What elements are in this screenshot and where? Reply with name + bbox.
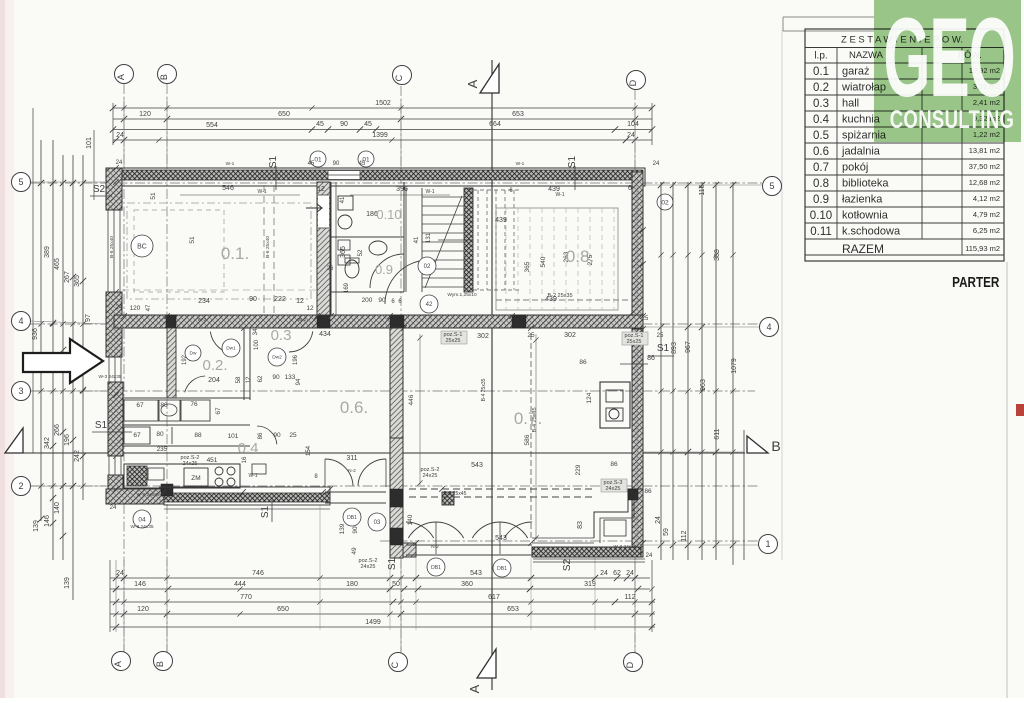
- extra ticks bottom chains: [121, 575, 126, 580]
- svg-text:RAZEM: RAZEM: [842, 242, 884, 256]
- svg-text:0.10: 0.10: [810, 210, 832, 222]
- partition 0.2/0.3 x167: [167, 328, 176, 398]
- right exterior wall: [632, 172, 643, 316]
- svg-text:B-6 25x40: B-6 25x40: [265, 236, 271, 258]
- svg-text:396: 396: [396, 186, 408, 193]
- svg-text:140: 140: [54, 502, 61, 514]
- svg-text:451: 451: [207, 457, 218, 464]
- svg-text:Dw1: Dw1: [226, 346, 236, 352]
- door arc hall big: [385, 260, 428, 304]
- svg-text:34: 34: [253, 328, 259, 335]
- svg-text:04: 04: [138, 516, 146, 523]
- svg-text:131: 131: [426, 232, 432, 243]
- svg-text:88: 88: [194, 432, 202, 439]
- svg-text:196: 196: [293, 354, 299, 365]
- svg-text:W-1: W-1: [555, 192, 564, 198]
- svg-text:24x25: 24x25: [606, 486, 621, 492]
- svg-text:DB1: DB1: [497, 566, 507, 572]
- svg-text:311: 311: [346, 455, 357, 462]
- bottom-right exterior wall: [532, 547, 641, 557]
- svg-text:133: 133: [285, 374, 296, 381]
- svg-text:0.3: 0.3: [813, 98, 829, 110]
- washbasin 0.9: [369, 241, 387, 255]
- svg-text:45: 45: [364, 121, 372, 128]
- svg-text:746: 746: [252, 570, 264, 577]
- svg-text:2: 2: [18, 481, 23, 491]
- svg-text:104: 104: [627, 121, 639, 128]
- svg-text:242: 242: [74, 450, 81, 462]
- svg-text:0.6.: 0.6.: [340, 398, 368, 417]
- right dim chains: [660, 182, 662, 560]
- door opening sill room 0.6: [325, 491, 386, 493]
- svg-text:C: C: [394, 74, 404, 81]
- svg-text:58: 58: [236, 376, 242, 383]
- svg-text:W-1: W-1: [516, 161, 525, 167]
- svg-text:01: 01: [314, 156, 322, 163]
- big north arrow: [23, 339, 103, 383]
- svg-text:garaż: garaż: [842, 66, 870, 78]
- svg-text:42: 42: [426, 302, 433, 308]
- svg-text:67: 67: [133, 432, 141, 439]
- svg-text:154: 154: [306, 445, 312, 456]
- svg-text:A: A: [467, 684, 482, 693]
- left window lower: [108, 357, 110, 382]
- svg-text:24: 24: [600, 570, 608, 577]
- section marker A bottom: [477, 649, 496, 678]
- dashed beam room 0.8: [496, 299, 628, 301]
- svg-text:Dw: Dw: [190, 351, 197, 357]
- faint page border lines: [781, 30, 783, 560]
- svg-text:DB1: DB1: [347, 515, 357, 521]
- svg-text:S2: S2: [93, 184, 106, 195]
- svg-text:365: 365: [340, 246, 347, 258]
- svg-text:0.11: 0.11: [810, 226, 832, 238]
- top exterior wall: [114, 168, 645, 186]
- svg-text:W-3 24x35: W-3 24x35: [98, 374, 121, 380]
- garage gate dashed zone BC: [127, 203, 311, 299]
- svg-text:hall: hall: [842, 98, 859, 110]
- closets row2: [122, 424, 250, 426]
- door arc 0.9: [370, 254, 404, 288]
- kitchen counter: [124, 464, 240, 488]
- svg-text:90: 90: [249, 296, 257, 303]
- svg-text:24: 24: [110, 505, 117, 511]
- svg-text:116: 116: [699, 184, 706, 195]
- svg-text:967: 967: [685, 341, 692, 353]
- svg-text:543: 543: [470, 570, 482, 577]
- middle wall columns: [390, 315, 404, 328]
- svg-text:biblioteka: biblioteka: [842, 178, 889, 190]
- grid circles top: [115, 65, 134, 84]
- svg-text:664: 664: [489, 121, 501, 128]
- svg-text:pokój: pokój: [842, 162, 868, 174]
- svg-text:W-1: W-1: [425, 189, 434, 195]
- svg-text:1499: 1499: [365, 619, 381, 626]
- svg-text:650: 650: [278, 111, 290, 118]
- svg-text:389: 389: [714, 249, 721, 261]
- svg-text:653: 653: [507, 606, 519, 613]
- svg-text:62: 62: [258, 375, 264, 382]
- svg-text:83: 83: [577, 521, 584, 529]
- 0.7 dims: [535, 334, 537, 540]
- svg-text:770: 770: [240, 594, 252, 601]
- terrace wall strip under 0.6: [442, 492, 454, 505]
- svg-text:41: 41: [414, 236, 420, 243]
- svg-text:45: 45: [359, 161, 366, 167]
- svg-text:5: 5: [18, 177, 23, 187]
- svg-text:6,25 m2: 6,25 m2: [973, 226, 1000, 235]
- kitchen corner column: [161, 484, 173, 496]
- svg-text:0.4: 0.4: [813, 114, 830, 126]
- bottom dim chains: [110, 577, 650, 579]
- svg-text:936: 936: [32, 328, 39, 340]
- svg-text:546: 546: [222, 185, 234, 192]
- svg-text:302: 302: [564, 332, 576, 339]
- grid axis lines: [123, 84, 125, 652]
- svg-text:24: 24: [646, 553, 653, 559]
- svg-text:1079: 1079: [731, 358, 738, 374]
- svg-text:234: 234: [198, 298, 210, 305]
- sink unit: [127, 466, 147, 486]
- closets top wall y398: [122, 397, 250, 399]
- svg-text:653: 653: [512, 111, 524, 118]
- svg-text:90: 90: [378, 297, 386, 304]
- right bottom step corner: [594, 489, 643, 538]
- svg-text:6: 6: [628, 185, 632, 192]
- svg-text:235: 235: [157, 446, 168, 453]
- svg-text:DB1: DB1: [431, 565, 441, 571]
- svg-text:B-6 25x40: B-6 25x40: [109, 236, 115, 258]
- svg-text:229: 229: [575, 464, 582, 475]
- svg-text:jadalnia: jadalnia: [841, 146, 881, 158]
- svg-text:S1: S1: [95, 420, 108, 431]
- lintel circles 01: [310, 151, 326, 167]
- svg-text:543: 543: [495, 535, 507, 542]
- extra ticks right chains: [658, 252, 663, 257]
- svg-text:146: 146: [134, 581, 146, 588]
- svg-text:25x25: 25x25: [446, 338, 461, 344]
- fireplace: [600, 382, 630, 428]
- svg-text:434: 434: [319, 331, 331, 338]
- svg-text:90: 90: [333, 161, 340, 167]
- svg-text:PARTER: PARTER: [952, 274, 999, 291]
- svg-text:76: 76: [190, 401, 198, 408]
- svg-text:25x25: 25x25: [627, 339, 642, 345]
- svg-text:12: 12: [246, 376, 252, 383]
- svg-text:W-3 24x35: W-3 24x35: [130, 524, 153, 530]
- svg-text:51: 51: [189, 236, 196, 244]
- svg-text:90: 90: [352, 526, 359, 534]
- middle horizontal wall: [114, 315, 643, 328]
- svg-text:120: 120: [137, 606, 149, 613]
- svg-text:5: 5: [769, 181, 774, 191]
- svg-text:266: 266: [54, 424, 61, 436]
- svg-text:200: 200: [362, 297, 373, 304]
- boiler 0.10: [338, 196, 353, 210]
- bottom chain verticals: [109, 560, 111, 632]
- svg-text:94: 94: [296, 378, 302, 385]
- door circles hall: [222, 339, 240, 357]
- section marker A top: [480, 64, 499, 93]
- entry arrow: [306, 204, 322, 212]
- svg-text:0.9: 0.9: [813, 194, 829, 206]
- top chain verticals: [112, 103, 114, 145]
- svg-text:1399: 1399: [372, 132, 388, 139]
- svg-text:0.8.: 0.8.: [566, 247, 594, 266]
- 0.6 dims: [419, 334, 421, 485]
- svg-text:67: 67: [136, 402, 144, 409]
- partition hall right x244: [243, 328, 245, 400]
- svg-text:02: 02: [661, 199, 669, 206]
- svg-text:25: 25: [527, 332, 535, 339]
- svg-text:59: 59: [663, 528, 670, 536]
- svg-text:0.10: 0.10: [376, 207, 401, 222]
- svg-text:97: 97: [85, 314, 92, 322]
- svg-text:302: 302: [477, 333, 489, 340]
- double door 0.6 to terrace: [325, 459, 353, 486]
- grid circles bottom: [112, 652, 131, 671]
- svg-text:52: 52: [358, 249, 364, 256]
- svg-text:24: 24: [116, 305, 123, 311]
- svg-text:196: 196: [64, 434, 71, 446]
- hall door arcs: [210, 332, 236, 354]
- svg-text:101: 101: [86, 137, 93, 149]
- svg-text:B-3 25x45: B-3 25x45: [444, 491, 467, 497]
- 0.9 bottom wall y292: [331, 291, 404, 293]
- svg-text:446: 446: [408, 394, 415, 405]
- svg-text:67: 67: [215, 407, 222, 415]
- svg-text:444: 444: [234, 581, 246, 588]
- fridge small rects: [252, 464, 266, 474]
- svg-text:24: 24: [116, 570, 124, 577]
- svg-text:łazienka: łazienka: [842, 194, 883, 206]
- svg-text:l.p.: l.p.: [814, 51, 827, 62]
- svg-text:W-3 24x35: W-3 24x35: [136, 492, 159, 498]
- patio door opening: [406, 544, 532, 546]
- svg-text:124: 124: [586, 392, 593, 403]
- dashed ceiling beams: [409, 488, 594, 490]
- garage gate opening (thin lines): [107, 210, 109, 292]
- svg-text:A: A: [113, 661, 123, 667]
- svg-text:51: 51: [150, 192, 157, 200]
- svg-text:B: B: [771, 438, 780, 454]
- svg-text:0.1.: 0.1.: [221, 244, 249, 263]
- svg-text:B: B: [159, 74, 169, 80]
- svg-text:0.9: 0.9: [375, 262, 393, 277]
- svg-text:586: 586: [524, 434, 531, 445]
- green logo block: [874, 0, 1021, 142]
- svg-text:0.2: 0.2: [813, 82, 829, 94]
- entry gap in garage right wall: [318, 195, 329, 228]
- svg-text:80: 80: [156, 431, 164, 438]
- svg-text:222: 222: [274, 296, 286, 303]
- svg-text:25: 25: [657, 333, 664, 339]
- svg-text:16: 16: [242, 456, 248, 463]
- svg-text:101: 101: [228, 433, 239, 440]
- svg-text:1502: 1502: [375, 100, 391, 107]
- svg-text:140: 140: [407, 514, 414, 525]
- svg-text:W-1: W-1: [226, 161, 235, 167]
- svg-text:S1: S1: [657, 343, 670, 354]
- svg-text:112: 112: [624, 594, 635, 601]
- window sill below bottom-right wall: [533, 558, 645, 560]
- svg-text:24: 24: [116, 132, 124, 139]
- scan pink left edge: [0, 0, 5, 698]
- svg-text:k.schodowa: k.schodowa: [842, 226, 901, 238]
- svg-text:37,50 m2: 37,50 m2: [969, 162, 1000, 171]
- svg-text:86: 86: [258, 432, 264, 439]
- svg-text:45: 45: [308, 161, 315, 167]
- 0.10 right wall x404: [403, 182, 405, 292]
- svg-text:342: 342: [44, 437, 51, 449]
- svg-text:N-2: N-2: [431, 544, 439, 550]
- svg-text:ZM: ZM: [191, 475, 200, 482]
- svg-text:86: 86: [647, 355, 655, 362]
- svg-text:439: 439: [495, 217, 507, 224]
- svg-text:86: 86: [644, 488, 652, 495]
- grid circles left: [12, 173, 31, 192]
- svg-text:611: 611: [714, 428, 721, 439]
- svg-text:GEO: GEO: [883, 0, 1014, 121]
- svg-text:13,81 m2: 13,81 m2: [969, 146, 1000, 155]
- svg-text:0.3: 0.3: [271, 327, 292, 344]
- svg-text:0.5: 0.5: [813, 130, 829, 142]
- svg-text:A: A: [116, 74, 126, 80]
- svg-text:D: D: [628, 79, 638, 86]
- svg-text:0.2.: 0.2.: [202, 357, 227, 374]
- stair enclosure dark bar: [464, 188, 473, 292]
- svg-text:4: 4: [18, 316, 23, 326]
- svg-text:139: 139: [33, 520, 40, 532]
- svg-text:0.6: 0.6: [813, 146, 829, 158]
- dashed bay in 0.8: [496, 208, 618, 310]
- svg-text:0.7: 0.7: [813, 162, 829, 174]
- svg-text:24: 24: [653, 161, 660, 167]
- closets row1: [124, 400, 158, 421]
- svg-text:3: 3: [18, 386, 23, 396]
- svg-text:90: 90: [272, 374, 280, 381]
- svg-text:86: 86: [579, 359, 587, 366]
- svg-text:120: 120: [130, 305, 141, 312]
- svg-text:Dw2: Dw2: [272, 355, 282, 361]
- svg-text:86: 86: [610, 461, 618, 468]
- svg-text:24x25: 24x25: [183, 461, 198, 467]
- svg-text:115,93 m2: 115,93 m2: [965, 244, 1000, 253]
- svg-text:0.8: 0.8: [813, 178, 829, 190]
- svg-text:41: 41: [340, 196, 346, 203]
- svg-text:24x25: 24x25: [361, 564, 376, 570]
- svg-text:49: 49: [351, 547, 358, 555]
- svg-text:204: 204: [208, 377, 220, 384]
- top dim chains: [113, 107, 652, 109]
- extra ticks top chains: [121, 105, 126, 110]
- svg-text:N-2: N-2: [348, 468, 356, 474]
- section marker left triangle: [5, 428, 23, 453]
- svg-text:554: 554: [206, 122, 218, 129]
- extra ticks left chains: [38, 180, 43, 185]
- vertical wall between 0.6 and 0.7: [390, 328, 403, 438]
- svg-text:180: 180: [346, 581, 358, 588]
- svg-text:S2: S2: [562, 558, 573, 571]
- svg-text:W-3 24x35: W-3 24x35: [613, 544, 636, 550]
- svg-text:4,79 m2: 4,79 m2: [973, 210, 1000, 219]
- svg-text:W-2: W-2: [298, 317, 307, 323]
- left exterior wall segments: [106, 168, 122, 210]
- svg-text:kotłownia: kotłownia: [842, 210, 889, 222]
- svg-text:146: 146: [44, 515, 51, 527]
- svg-text:650: 650: [277, 606, 289, 613]
- area table: [805, 29, 1004, 261]
- svg-text:139: 139: [64, 577, 71, 589]
- red mark right edge: [1016, 404, 1024, 416]
- svg-text:112: 112: [681, 530, 688, 541]
- grid circles right: [763, 177, 782, 196]
- section marker B right: [747, 436, 768, 453]
- svg-text:4: 4: [766, 322, 771, 332]
- stairs treads: [422, 196, 464, 198]
- svg-text:24: 24: [116, 160, 123, 166]
- patio 4-leaf door 0.7: [408, 522, 436, 538]
- door arc kitchen/0.3: [257, 426, 277, 444]
- svg-text:120: 120: [139, 111, 151, 118]
- svg-text:W-1: W-1: [248, 473, 257, 479]
- svg-text:50: 50: [392, 581, 400, 588]
- svg-text:1: 1: [765, 539, 770, 549]
- stair diagonal cut: [425, 196, 462, 288]
- svg-text:0.1: 0.1: [813, 66, 829, 78]
- garage beam dashes: [263, 185, 265, 315]
- svg-text:Wym.1,25x10: Wym.1,25x10: [447, 292, 477, 298]
- toilet 0.9: [345, 260, 359, 278]
- svg-text:465: 465: [54, 258, 61, 270]
- svg-text:90: 90: [273, 432, 281, 439]
- svg-text:24x25: 24x25: [423, 473, 438, 479]
- svg-text:365: 365: [524, 261, 531, 272]
- svg-text:CONSULTING: CONSULTING: [890, 105, 1015, 133]
- svg-text:169: 169: [344, 282, 350, 293]
- svg-text:267: 267: [64, 271, 71, 283]
- svg-text:03: 03: [374, 520, 381, 526]
- garage right wall: [317, 182, 330, 315]
- svg-text:A: A: [465, 79, 480, 88]
- bottom-left exterior wall: [106, 489, 164, 504]
- svg-text:0.4: 0.4: [238, 440, 259, 457]
- svg-text:90: 90: [340, 121, 348, 128]
- svg-text:0.7.: 0.7.: [514, 409, 542, 428]
- svg-text:540: 540: [540, 256, 547, 267]
- partition 0.10/0.9 divider y237: [331, 236, 404, 238]
- left dim chains: [32, 108, 34, 453]
- svg-text:617: 617: [488, 594, 500, 601]
- svg-text:25: 25: [642, 316, 649, 322]
- svg-text:26: 26: [327, 266, 334, 272]
- left horiz stubs to circles: [30, 181, 106, 183]
- svg-text:139: 139: [339, 523, 346, 534]
- svg-text:B: B: [155, 661, 165, 667]
- svg-text:12: 12: [306, 305, 314, 312]
- section line B-B horizontal: [5, 452, 745, 454]
- svg-text:BC: BC: [137, 243, 147, 250]
- svg-text:S1: S1: [260, 505, 271, 518]
- svg-text:W-1: W-1: [257, 189, 266, 195]
- svg-text:12,68 m2: 12,68 m2: [969, 178, 1000, 187]
- section line A-A vertical: [491, 60, 493, 690]
- right horiz stubs: [643, 184, 762, 186]
- svg-text:45: 45: [316, 121, 324, 128]
- stairs dashed upper flight: [477, 190, 479, 290]
- svg-text:439: 439: [545, 296, 557, 303]
- svg-text:80: 80: [160, 402, 168, 409]
